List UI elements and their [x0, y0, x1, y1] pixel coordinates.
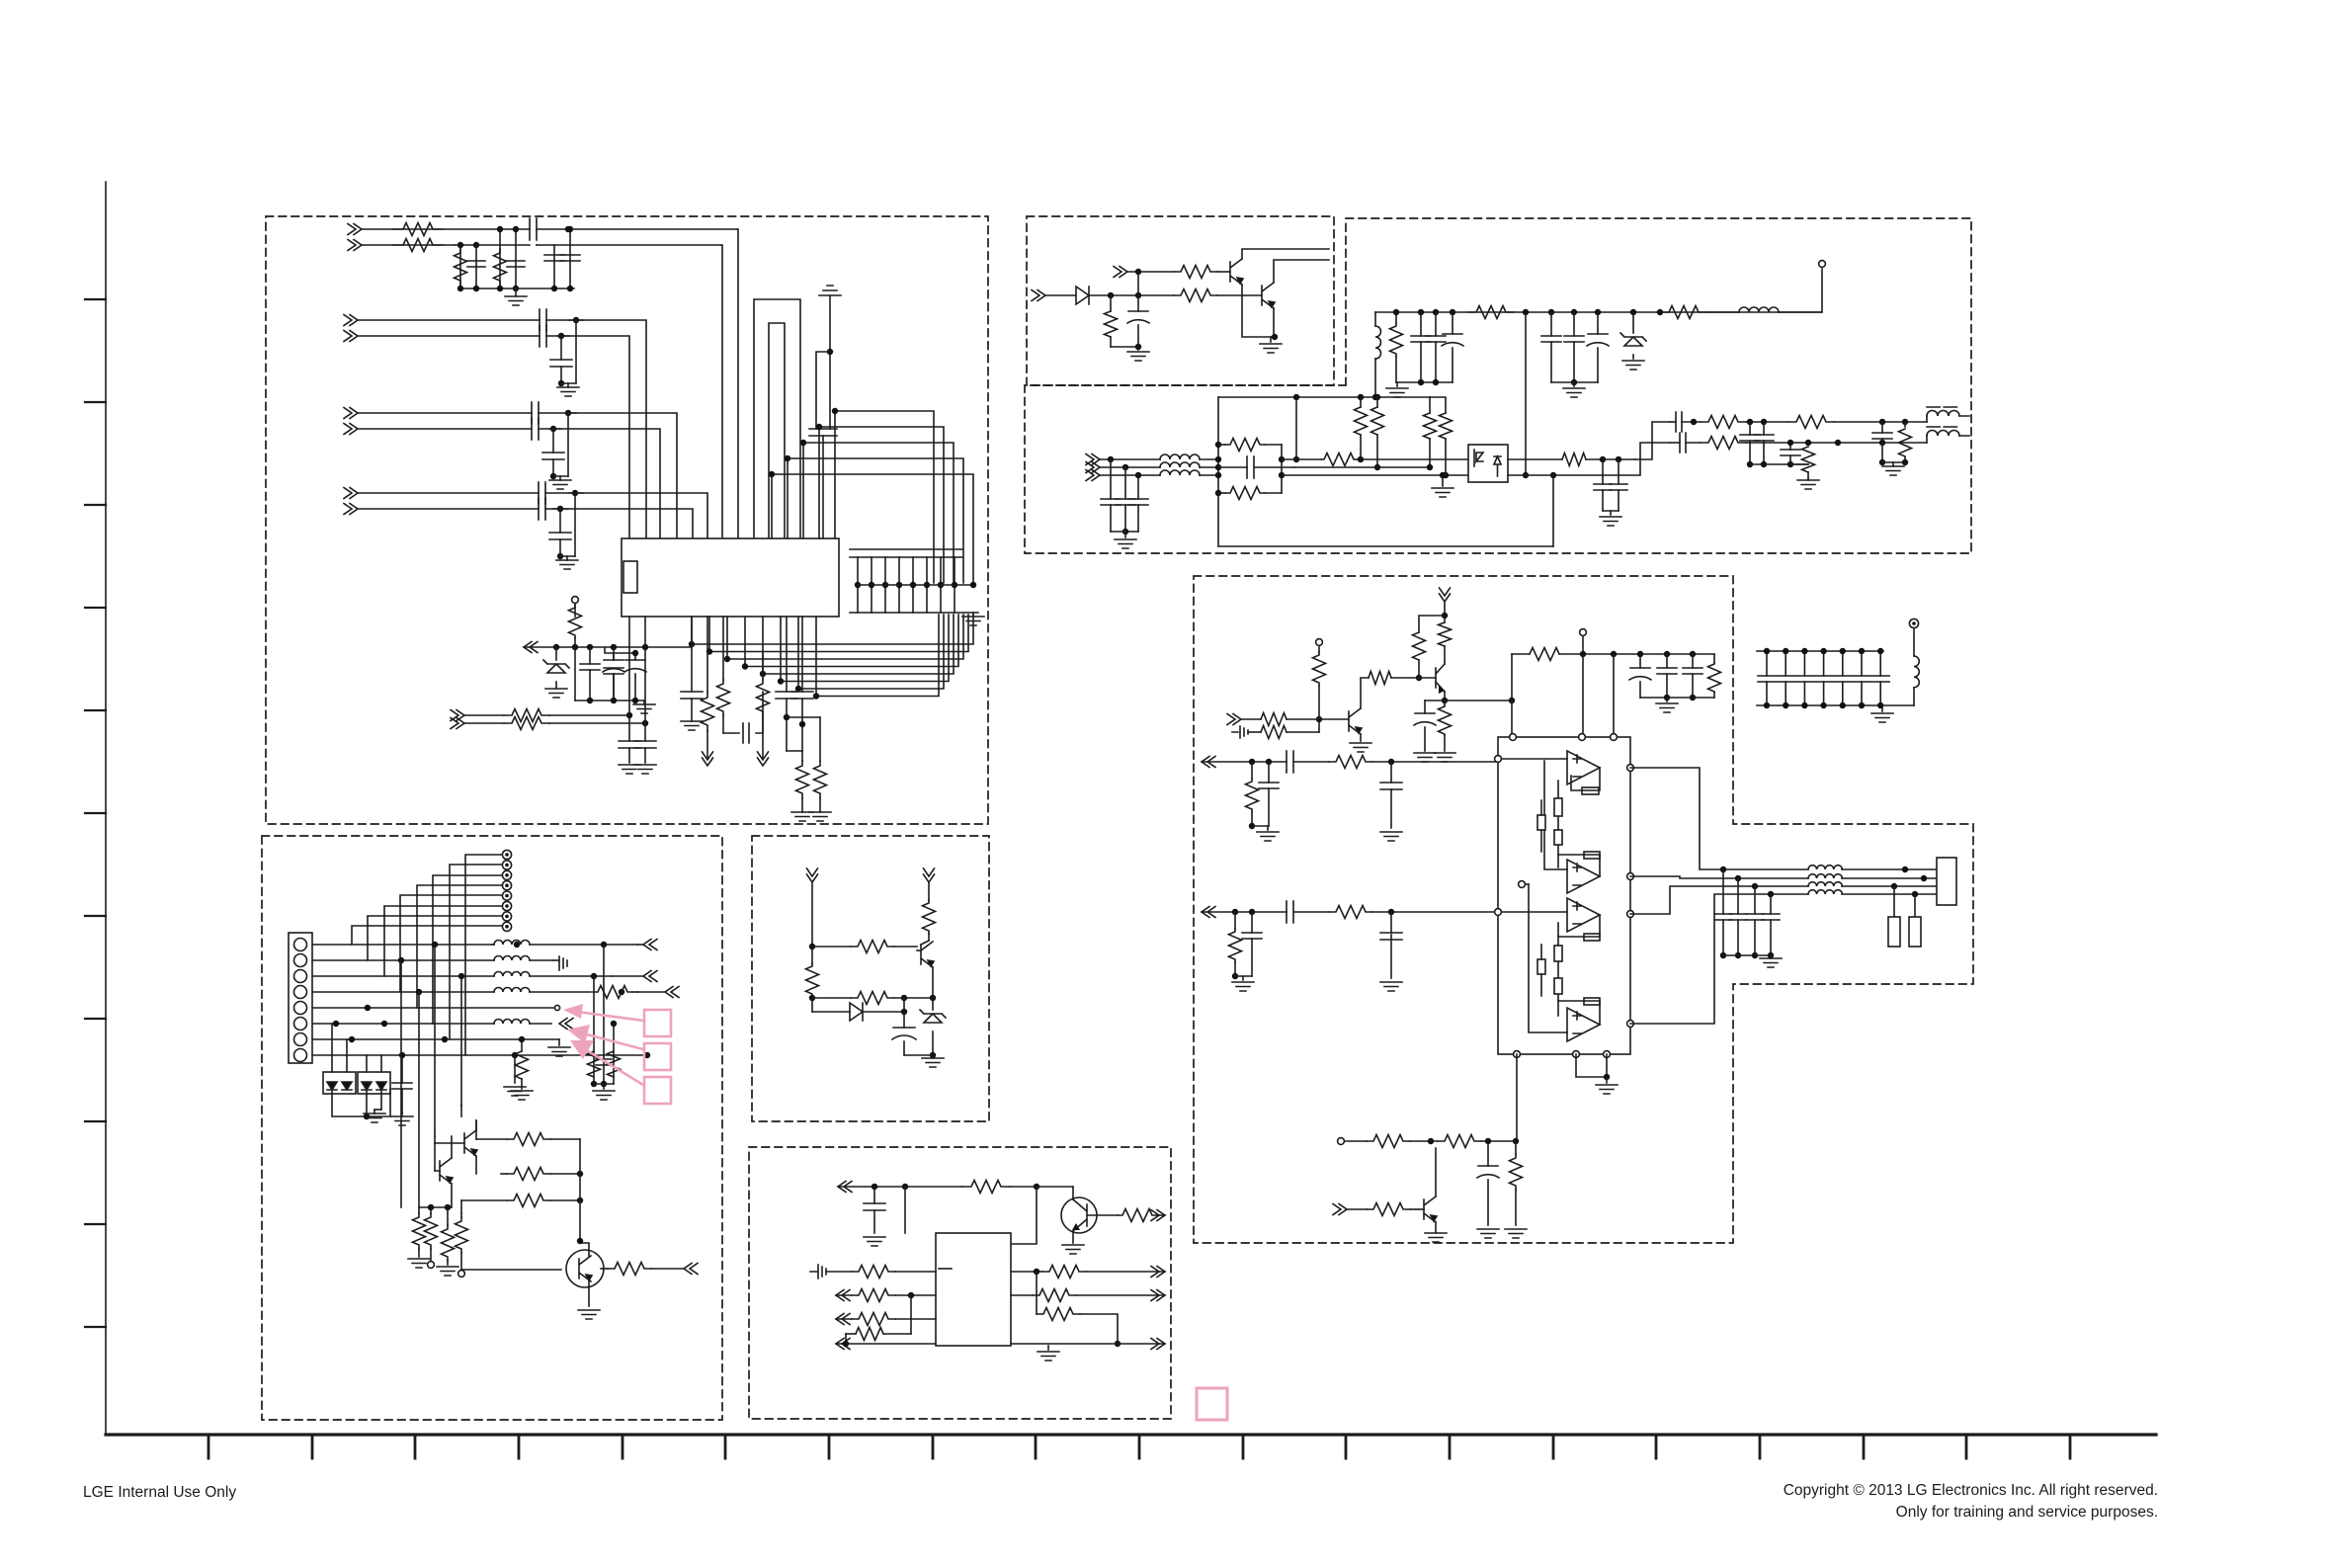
wire ain2b — [1293, 911, 1329, 913]
connector arrow IN5 — [344, 408, 358, 419]
capacitor C406 — [1259, 762, 1279, 826]
wire pw brail2 — [1551, 381, 1598, 383]
capacitor C413 — [1477, 1141, 1499, 1225]
connector arrow FO4 — [637, 987, 679, 998]
capacitor C132 — [603, 647, 624, 701]
ground pw1 — [1386, 382, 1408, 397]
key/IR section box outline — [262, 836, 722, 1420]
wire d501 up — [903, 998, 905, 1012]
capacitor C403 — [1657, 654, 1677, 701]
wire g1b — [1010, 1186, 1037, 1188]
wire aout4 — [1630, 894, 1808, 1024]
resistor R503 — [806, 947, 819, 1012]
wire pw right — [1706, 311, 1739, 313]
ground c401 — [1414, 753, 1436, 762]
wire g out3 — [1011, 1343, 1118, 1345]
capacitor C311 — [1116, 467, 1135, 535]
highlight arrow 1 — [563, 1004, 643, 1021]
connector arrow XT2 — [451, 718, 464, 729]
pin P1 — [572, 597, 579, 604]
resistor R314 — [1508, 454, 1635, 466]
inductor L504 — [494, 988, 624, 996]
capacitor C140 — [784, 617, 813, 751]
wire below rail — [575, 647, 644, 703]
wire rail bottom — [457, 286, 574, 291]
capacitor C324 — [1781, 440, 1800, 464]
wire aout cont — [1720, 867, 1944, 897]
wire bt1 — [1410, 1138, 1438, 1144]
ground below rail — [633, 701, 655, 713]
wire F v621 — [613, 1024, 615, 1084]
capacitor C317 — [1594, 459, 1612, 511]
wire F row2 — [313, 957, 494, 963]
wire q401 e gnd — [1350, 734, 1371, 752]
diode D501 — [812, 1003, 907, 1021]
diode D201 — [1045, 287, 1089, 304]
resistor R607 — [836, 1295, 911, 1347]
transistor Q503 — [440, 1158, 453, 1184]
wire F vrail — [594, 1083, 614, 1085]
wire out1 — [1682, 419, 1701, 425]
ground tuner input — [505, 289, 527, 305]
wire e gnd — [904, 1054, 933, 1056]
wire out1b — [1746, 419, 1788, 425]
resistor R323 — [1802, 440, 1815, 478]
capacitor C404 — [1683, 654, 1702, 701]
net arrow E2 — [924, 868, 935, 882]
connector arrow AIN1 — [1202, 757, 1215, 768]
connector arrow G8 — [1076, 1290, 1165, 1301]
resistor R413 — [1229, 912, 1242, 979]
net arrow dn1 — [703, 752, 713, 766]
pin U401 b1 — [1514, 1051, 1521, 1058]
wire q403 e — [1435, 1222, 1437, 1233]
highlight box 3 — [644, 1077, 671, 1104]
ground cap bus — [962, 613, 984, 625]
transistor Q403 — [1424, 1197, 1437, 1222]
pin P401 — [1316, 639, 1323, 646]
ground opto — [1600, 511, 1621, 526]
resistor R605 — [836, 1289, 936, 1302]
wire g1 — [838, 1184, 962, 1190]
pin F row5 — [554, 1005, 559, 1010]
capacitor C141 series — [539, 498, 545, 520]
wire pw top rail — [1375, 309, 1822, 315]
inductor L402-405 — [1808, 866, 1842, 894]
wire f mid verticals — [401, 945, 461, 1207]
resistor R423 — [1438, 1135, 1481, 1148]
inductor L503 — [494, 972, 613, 980]
wire in7 — [358, 492, 539, 494]
resistor R110 — [569, 605, 582, 647]
wire pw vert1544 — [1523, 312, 1529, 478]
wire q202 e — [1272, 308, 1278, 340]
resistor R324 — [1879, 422, 1912, 465]
connector arrow AC3 — [1086, 470, 1100, 481]
pin P301 — [1819, 261, 1826, 268]
resistor R114 — [717, 617, 730, 733]
ground ain1 — [1257, 826, 1279, 841]
ground c410 — [1380, 982, 1402, 991]
wire out2 — [1746, 440, 1927, 446]
capacitor C318 — [1610, 459, 1627, 511]
pin U401 r4 — [1627, 1021, 1634, 1028]
ground top stub — [819, 286, 841, 429]
protection section box outline — [752, 836, 989, 1121]
ground r425 — [1505, 1229, 1527, 1238]
resistor R405 — [1439, 701, 1452, 751]
resistor R505 — [593, 986, 637, 999]
capacitor C136 — [634, 617, 656, 763]
wire in8 — [358, 508, 539, 510]
ground F vrail — [593, 1084, 615, 1100]
capacitor C105 — [560, 226, 580, 291]
connector arrow AC2 — [1086, 462, 1100, 473]
capacitor C502 — [392, 1052, 412, 1113]
resistor R512 — [425, 1204, 438, 1261]
wire amp vcc rail — [1512, 651, 1714, 657]
wire smps v1312 — [1293, 397, 1299, 462]
resistor R507 — [476, 1120, 580, 1146]
ground q403 — [1425, 1233, 1447, 1242]
frame bottom line — [106, 1433, 2156, 1436]
wire rst1 — [1127, 269, 1174, 275]
capacitor C303 — [1442, 312, 1463, 382]
capacitor C310 — [1101, 459, 1121, 532]
wire xt1 — [464, 712, 632, 718]
wire in4 — [358, 335, 540, 337]
resistor R415 fb — [1558, 852, 1600, 876]
connector arrow FQ — [651, 1264, 698, 1275]
wire f row8 stub — [504, 1055, 526, 1096]
wire ain2 — [1202, 909, 1287, 915]
ground c407 — [1380, 832, 1402, 841]
resistor R310 — [1218, 439, 1282, 452]
connector arrow MUTE — [1227, 714, 1248, 739]
capacitor C102 — [507, 226, 525, 291]
connector arrow FO3 — [613, 971, 657, 982]
capacitor C122 — [550, 336, 572, 386]
wire ain2c — [1372, 909, 1497, 915]
resistor R603 — [1118, 1209, 1157, 1222]
svg-text:Copyright © 2013 LG Electronic: Copyright © 2013 LG Electronics Inc. All… — [1784, 1482, 2158, 1499]
wire smps row3 — [1282, 472, 1468, 478]
wire lad to q — [460, 1269, 462, 1271]
connector arrow AIN2 — [1202, 907, 1215, 918]
wire e1 — [811, 882, 813, 947]
capacitor C412 — [1909, 894, 1921, 947]
capacitor C139 — [776, 617, 797, 751]
ground zener — [545, 689, 567, 698]
ground q601 — [1062, 1245, 1084, 1254]
pin U401 r2 — [1627, 873, 1634, 880]
wire IN2 — [362, 244, 455, 246]
optocoupler U301 — [1468, 445, 1508, 482]
ground tvs — [364, 1110, 385, 1122]
resistor R312 — [1282, 454, 1468, 466]
wire q502 — [435, 1120, 476, 1174]
wire q401 c — [1361, 678, 1369, 708]
wire aout2 — [1630, 876, 1808, 914]
capacitor C302 — [1426, 312, 1446, 382]
wire r bottom — [787, 717, 820, 751]
wire q202 c — [1274, 260, 1329, 283]
capacitor C142 — [549, 509, 571, 559]
IC U101 main demod — [622, 538, 839, 617]
wire ain1c — [1372, 759, 1497, 765]
resistor R516 — [516, 1039, 529, 1089]
ground r405 — [1434, 753, 1455, 762]
ground lad1 — [408, 1259, 430, 1268]
wire F row4 — [313, 989, 494, 995]
capacitor bank CB1 plates — [850, 549, 962, 557]
wire ac3 — [1100, 472, 1160, 478]
wire opto grail — [1603, 510, 1619, 512]
TVS D503 — [323, 1072, 356, 1094]
wire IN2 cont — [537, 244, 721, 246]
wire e2b — [928, 934, 930, 941]
resistor R112 — [504, 717, 549, 730]
resistor R424 — [1347, 1203, 1410, 1216]
ground outg — [1790, 464, 1819, 489]
resistor R513 — [442, 1207, 455, 1265]
capacitor C323 — [1747, 422, 1774, 467]
resistor R317 tall — [1294, 397, 1430, 470]
capacitor C103 series — [530, 218, 568, 240]
wire pw brail — [1396, 379, 1453, 385]
ground r516 — [511, 1091, 533, 1100]
wire q601 c — [1034, 1184, 1073, 1199]
wire g6 — [846, 1343, 936, 1345]
svg-text:LGE Internal Use Only: LGE Internal Use Only — [83, 1484, 236, 1501]
wire q201 c — [1242, 249, 1329, 259]
wire bundle bottom staircase — [689, 615, 973, 700]
resistor R411 — [1246, 762, 1259, 829]
wire rst2b — [1217, 294, 1262, 296]
resistor R506 — [460, 1106, 462, 1116]
highlight arrow 3 — [570, 1040, 643, 1085]
ground bigq — [578, 1310, 600, 1319]
wire g out2 — [1011, 1294, 1033, 1296]
resistor R111 — [504, 709, 549, 722]
resistor R421 v — [1554, 946, 1562, 961]
wire IN1 cont — [565, 226, 737, 232]
IC U401 audio amplifier — [1498, 737, 1630, 1054]
capacitor C121 series — [540, 325, 546, 347]
inductor L307 — [1160, 470, 1218, 475]
ground rbt — [791, 812, 831, 821]
wire bigq c — [577, 1238, 589, 1306]
capacitor C138 series — [723, 692, 763, 743]
tuner section box outline — [266, 216, 988, 824]
inductor L301 — [1372, 312, 1381, 400]
capacitor C401 — [1414, 701, 1436, 751]
wire aout1 — [1630, 768, 1808, 869]
wire loop tall — [754, 299, 800, 538]
wire smps left rail — [1215, 397, 1221, 546]
pin U401 t1 — [1510, 734, 1517, 741]
wire gstub1 — [553, 413, 568, 476]
connector arrow G6 — [836, 1339, 850, 1350]
zener D301 — [1620, 312, 1646, 359]
capacitor C321 series — [1670, 433, 1701, 453]
capacitor C131 series — [532, 418, 539, 440]
wire cap bus verticals — [855, 557, 957, 613]
capacitor C407 — [1380, 762, 1402, 828]
resistor R401 — [1241, 713, 1287, 726]
transistor Q502 — [464, 1130, 477, 1156]
wire F v601 — [591, 976, 597, 1087]
capacitor C503 — [596, 1059, 612, 1065]
highlight arrow 2 — [567, 1025, 643, 1049]
resistor R201 — [1174, 266, 1217, 279]
transistor Q504 big — [566, 1250, 604, 1287]
resistor R302 — [1468, 306, 1514, 319]
connector arrow IN4 — [344, 331, 358, 342]
wire F row7 — [313, 1036, 559, 1042]
resistor R102 — [393, 239, 443, 252]
wire q503 — [435, 1136, 452, 1207]
connector arrow G9 — [1118, 1339, 1165, 1350]
capacitor C101 — [467, 261, 485, 267]
resistor R320 — [1701, 416, 1746, 429]
resistor R515 — [601, 1263, 651, 1276]
wire q501 — [917, 941, 933, 998]
wire outg2 — [1882, 461, 1905, 463]
wire gstub0 — [561, 320, 576, 383]
wire q402 e — [1425, 692, 1515, 703]
ground u401 — [1596, 1077, 1618, 1094]
pins F top — [502, 850, 511, 931]
inductor L501 — [492, 941, 637, 949]
capacitor C409 — [1242, 912, 1262, 976]
wire b1 long — [1516, 1054, 1518, 1141]
pin U401 r3 — [1627, 911, 1634, 918]
connector arrow AC1 — [1086, 454, 1100, 465]
connector arrow G2 — [1151, 1210, 1165, 1221]
resistor R416 fb — [1558, 915, 1600, 941]
opamp A3 — [1567, 898, 1600, 932]
net arrow VCC4 — [1440, 588, 1451, 622]
resistor R202 — [1174, 289, 1217, 302]
highlight box 2 — [644, 1043, 671, 1070]
capacitor C322 — [1740, 422, 1760, 464]
capacitor C137 — [681, 617, 703, 721]
capacitor C133 — [604, 647, 638, 701]
connector arrow IN1 — [348, 224, 362, 235]
wire out1c — [1834, 419, 1927, 425]
connector arrow XT1 — [451, 710, 464, 721]
ground outg2 — [1882, 462, 1904, 475]
wire b2b3 loop — [1576, 1054, 1610, 1080]
wire bt base — [1410, 1208, 1424, 1210]
wire rst2 — [1089, 272, 1174, 298]
connector arrow FO6 — [559, 1019, 573, 1030]
capacitor C130 series — [532, 402, 539, 424]
wire F row3 — [313, 973, 494, 979]
wire amp internal — [1498, 759, 1567, 1032]
connector arrow RST2 — [1032, 290, 1045, 301]
wire vcc drop — [1512, 654, 1614, 737]
connector arrow IN8 — [344, 504, 358, 515]
ground ain2 — [1232, 976, 1254, 991]
resistor R203 — [1105, 295, 1142, 350]
resistor R419 v — [1554, 830, 1562, 845]
resistor R511 — [413, 1207, 426, 1257]
connector arrow G7 — [1086, 1267, 1165, 1278]
wire q601 e — [1072, 1231, 1074, 1243]
pin U401 mid — [1519, 881, 1529, 888]
resistor R101 — [393, 223, 443, 236]
wire q201 e — [1242, 285, 1275, 337]
capacitor C134 — [624, 660, 646, 701]
resistor R116 — [796, 751, 809, 812]
resistor R414 fb — [1571, 768, 1600, 794]
pin U401 t2 — [1579, 734, 1586, 741]
wire xt2 — [464, 720, 648, 726]
inductor L306 — [1927, 416, 1969, 443]
ground xtal — [619, 765, 656, 774]
wire bigq base — [461, 1269, 561, 1271]
wire out7 — [545, 490, 583, 496]
resistor R610 — [1037, 1272, 1121, 1347]
connector CN501 — [289, 933, 312, 1063]
capacitor bank CB401 — [1757, 648, 1914, 708]
IC U601 regulator — [936, 1233, 1011, 1346]
capacitor C501 — [892, 1012, 916, 1055]
inductor L505 — [494, 1020, 617, 1028]
resistor R318 v — [1424, 397, 1437, 470]
wire lad — [419, 1136, 580, 1241]
connector arrow G1 — [838, 1182, 852, 1193]
transistor Q401 — [1349, 708, 1362, 734]
inductor L304 — [1160, 462, 1218, 467]
resistor R311 — [1218, 487, 1282, 500]
frame bottom tick marks — [208, 1435, 2070, 1458]
wire F row1 — [313, 942, 520, 948]
resistor R608 — [1042, 1266, 1086, 1279]
ground rst — [1127, 347, 1149, 361]
wire out5 — [539, 410, 576, 416]
resistor R409 — [1708, 654, 1721, 698]
wire pw to pin — [1779, 269, 1822, 312]
wire g vert — [905, 1187, 1037, 1244]
capacitor C410 — [1380, 912, 1402, 978]
frame left ruler line — [105, 182, 107, 1435]
wire ain1b — [1293, 761, 1329, 763]
capacitor C104 — [544, 245, 564, 291]
connector arrow IN7 — [344, 488, 358, 499]
capacitor C312 — [1128, 475, 1148, 532]
connector arrow BT — [1333, 1204, 1347, 1215]
resistor R418 v — [1554, 798, 1562, 816]
capacitor C306 — [1587, 312, 1609, 382]
resistor R406 — [1413, 616, 1446, 681]
transistor Q402 — [1436, 664, 1445, 694]
wire F bus — [352, 855, 502, 1055]
connector arrow G4 — [836, 1290, 850, 1301]
ground c137 — [681, 721, 703, 730]
resistor R402 — [1248, 716, 1322, 739]
resistor R510 — [461, 1195, 583, 1214]
wire out6 — [539, 426, 561, 432]
ground tuner 4 — [556, 556, 578, 569]
resistor R425 — [1510, 1141, 1523, 1225]
wire ac gnd rail — [1111, 531, 1138, 533]
ground F row7 — [548, 1039, 570, 1056]
connector CN401 — [1937, 858, 1956, 905]
resistor R113 — [702, 617, 714, 759]
